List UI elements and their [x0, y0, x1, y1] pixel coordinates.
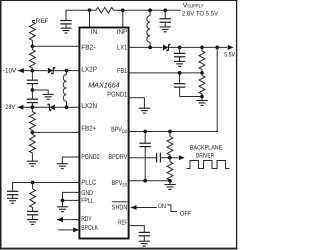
- ground: [196, 101, 207, 106]
- wire RDY output: [57, 219, 79, 221]
- arrow -10V: [18, 68, 24, 73]
- svg-text:BPCLK: BPCLK: [81, 225, 98, 232]
- arrow SHDN: [131, 205, 137, 210]
- ground: [160, 27, 171, 32]
- ground: [174, 61, 185, 66]
- arrow 28V: [18, 105, 24, 110]
- switch ON/OFF: [167, 205, 177, 212]
- ground BPVSS: [164, 185, 175, 190]
- resistor R5 (FB2+ to gnd): [31, 132, 33, 134]
- resistor R3 (FB2- to -10V node): [31, 46, 33, 49]
- resistor R6 (PLLC): [32, 183, 34, 189]
- diode D2 (to LX2P): [48, 68, 55, 74]
- ground: [27, 220, 38, 225]
- wire PGND1: [128, 98, 144, 108]
- node BPVDD cap: [143, 130, 147, 134]
- node BPVSS cap: [143, 179, 147, 183]
- ground: [139, 241, 150, 246]
- wire FB1 line: [128, 72, 202, 74]
- wire BPCLK input: [58, 229, 79, 231]
- ground: [27, 161, 38, 166]
- wire PLLC line: [13, 183, 80, 192]
- wire BPDRV line: [128, 157, 156, 159]
- capacitor C6 (PLLC series): [27, 211, 38, 214]
- wire cap to node: [161, 157, 179, 159]
- wire SHDN input: [131, 207, 157, 209]
- wire C8 bottom to divider bottom: [180, 96, 202, 98]
- svg-text:-10V: -10V: [3, 67, 17, 74]
- node mid caps: [31, 88, 35, 92]
- node inductor bottom: [65, 105, 69, 109]
- capacitor C8 (feedforward): [179, 73, 181, 84]
- node FB1 divider top: [200, 46, 204, 50]
- svg-text:SHDN: SHDN: [112, 204, 128, 211]
- wire top supply rail: [66, 10, 96, 20]
- wire diode to LX2N: [55, 106, 79, 108]
- capacitor C11 (REF bypass): [139, 232, 150, 235]
- arrow 5.5V: [228, 45, 234, 50]
- svg-text:BPDRV: BPDRV: [108, 154, 127, 161]
- ground PGND2: [57, 164, 68, 169]
- wire C1 to ground: [65, 24, 67, 28]
- svg-text:REF: REF: [36, 18, 49, 25]
- node IN rail junction: [88, 8, 92, 12]
- svg-text:RDY: RDY: [81, 216, 92, 223]
- wire BPVDD line to 5.5V: [128, 47, 217, 131]
- resistor R2 (REF to FB2-): [30, 22, 36, 41]
- capacitor C1 (input bypass at IN): [60, 21, 71, 24]
- capacitor C4 (28V filter): [31, 90, 33, 99]
- ground: [43, 94, 54, 99]
- ground: [60, 28, 71, 33]
- wire IN pin drop: [89, 10, 91, 27]
- inductor L2 (LX2P-LX2N): [66, 71, 68, 75]
- svg-text:PGND2: PGND2: [81, 154, 99, 161]
- node divider bottom: [200, 95, 204, 99]
- resistor R1 (between IN and INP): [96, 7, 114, 13]
- wire BPVSS line: [128, 180, 170, 182]
- wire PGND2: [62, 157, 79, 164]
- resistor R9 (bias upper): [169, 132, 171, 137]
- wire GND pin: [63, 192, 80, 200]
- node 5.5V-BPVDD branch: [215, 46, 219, 50]
- capacitor C10 (BPDRV coupling): [156, 153, 158, 163]
- wire LX1 / 5.5V line: [128, 46, 162, 48]
- svg-text:28V: 28V: [5, 104, 16, 111]
- svg-text:LX2P: LX2P: [81, 67, 97, 74]
- wire FPLL pin: [63, 199, 80, 201]
- svg-text:5.5V: 5.5V: [224, 52, 235, 59]
- node BPVSS resistor: [168, 179, 172, 183]
- waveform square wave: [187, 161, 230, 169]
- node -10V junction: [31, 69, 35, 73]
- svg-text:BACKPLANE: BACKPLANE: [190, 144, 222, 151]
- svg-text:IN: IN: [91, 29, 98, 36]
- node PLLC RC junction: [31, 181, 35, 185]
- node L1 bottom: [148, 46, 152, 50]
- node 28V junction: [31, 105, 35, 109]
- capacitor C3 (-10V filter): [31, 71, 33, 81]
- svg-text:PGND1: PGND1: [107, 91, 127, 98]
- svg-text:ON: ON: [158, 203, 166, 210]
- svg-text:FB1: FB1: [117, 68, 127, 75]
- ground: [7, 198, 18, 203]
- IC U1 MAX1664: [79, 28, 128, 239]
- node L1 top junction: [148, 8, 152, 12]
- node INP rail junction: [121, 8, 125, 12]
- ground: [57, 207, 68, 212]
- wire INP pin drop: [122, 10, 124, 27]
- arrow BPCLK: [73, 227, 79, 232]
- svg-text:2.8V TO 5.5V: 2.8V TO 5.5V: [182, 10, 219, 17]
- wire diode to LX2P: [53, 70, 79, 72]
- svg-text:FPLL: FPLL: [81, 197, 93, 204]
- wire to ground: [169, 181, 171, 185]
- wire FB2- to IC: [32, 45, 79, 47]
- wire mid-cap ground stub: [32, 90, 48, 94]
- svg-text:GND: GND: [81, 190, 93, 197]
- diode D1 (boost rectifier): [163, 44, 170, 50]
- node GND-FPLL join: [61, 199, 65, 203]
- wire REF pin: [128, 226, 144, 233]
- svg-text:LX2N: LX2N: [81, 103, 97, 110]
- node FB2+ tap: [31, 131, 35, 135]
- svg-text:VSUPPLY: VSUPPLY: [183, 3, 204, 10]
- svg-text:MAX1664: MAX1664: [88, 81, 120, 90]
- node FB1 tap: [200, 71, 204, 75]
- resistor R7 (FB1 upper): [201, 47, 203, 51]
- node output cap junction: [178, 46, 182, 50]
- resistor R10 (bias lower): [169, 158, 171, 162]
- ground PGND1: [139, 108, 150, 113]
- svg-text:LX1: LX1: [117, 44, 127, 51]
- capacitor C7 (output): [179, 47, 181, 53]
- diode D3 (from LX2N): [48, 104, 55, 110]
- inductor L1 (boost): [149, 10, 151, 15]
- wire -10V output line: [18, 70, 47, 72]
- svg-text:OFF: OFF: [180, 210, 192, 217]
- arrow RDY: [57, 217, 63, 222]
- wire REF stub: [32, 21, 35, 22]
- node BPDRV bias: [168, 156, 172, 160]
- svg-text:REF: REF: [118, 220, 127, 227]
- svg-text:INP: INP: [117, 29, 128, 36]
- capacitor C5 (PLLC left): [7, 191, 18, 194]
- node BPVDD resistor: [168, 130, 172, 134]
- capacitor C2 (supply bypass): [164, 10, 166, 19]
- node C2 top junction: [163, 8, 167, 12]
- border frame: [0, 0, 237, 2]
- node inductor top: [65, 69, 69, 73]
- svg-text:DRIVER: DRIVER: [196, 152, 215, 159]
- svg-text:FB2-: FB2-: [81, 44, 96, 51]
- resistor R4 (28V to FB2+): [31, 107, 33, 111]
- node FB2- divider tap: [31, 44, 35, 48]
- resistor R8 (FB1 lower): [201, 73, 203, 76]
- node feedforward cap top: [178, 71, 182, 75]
- wire to ground: [62, 200, 64, 206]
- svg-text:FB2+: FB2+: [81, 126, 96, 133]
- capacitor C9 (BPVDD-BPVSS): [144, 132, 146, 144]
- svg-text:PLLC: PLLC: [81, 180, 96, 187]
- pin SHDN (overline): [112, 201, 128, 203]
- wire FB2+ to IC: [32, 131, 79, 133]
- wire 28V output line: [18, 106, 49, 108]
- arrow BPDRV output: [179, 155, 185, 160]
